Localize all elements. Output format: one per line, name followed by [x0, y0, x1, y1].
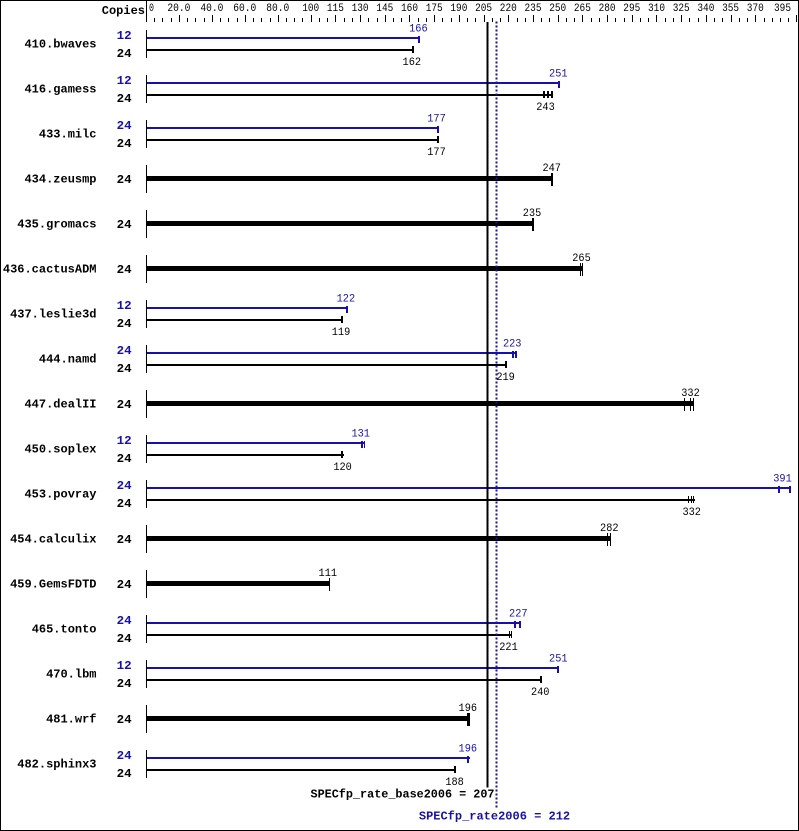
svg-text:24: 24 — [117, 137, 132, 151]
svg-text:160: 160 — [401, 3, 418, 15]
svg-text:450.soplex: 450.soplex — [24, 443, 96, 457]
svg-text:24: 24 — [117, 578, 132, 592]
svg-text:177: 177 — [427, 147, 446, 159]
svg-text:24: 24 — [117, 749, 132, 763]
svg-text:391: 391 — [773, 473, 792, 485]
svg-text:219: 219 — [496, 372, 515, 384]
svg-text:24: 24 — [117, 497, 132, 511]
svg-text:196: 196 — [459, 703, 478, 715]
svg-text:12: 12 — [117, 74, 132, 88]
svg-text:482.sphinx3: 482.sphinx3 — [17, 758, 96, 772]
svg-text:235: 235 — [523, 208, 542, 220]
svg-text:24: 24 — [117, 173, 132, 187]
svg-text:332: 332 — [682, 507, 701, 519]
svg-text:24: 24 — [117, 317, 132, 331]
svg-text:465.tonto: 465.tonto — [32, 623, 97, 637]
svg-text:100: 100 — [302, 3, 319, 15]
svg-text:145: 145 — [376, 3, 393, 15]
svg-text:227: 227 — [509, 608, 528, 620]
svg-text:265: 265 — [574, 3, 591, 15]
svg-text:24: 24 — [117, 344, 132, 358]
svg-text:410.bwaves: 410.bwaves — [24, 38, 96, 52]
svg-text:220: 220 — [500, 3, 517, 15]
svg-text:24: 24 — [117, 632, 132, 646]
svg-text:40.0: 40.0 — [200, 3, 223, 15]
svg-text:24: 24 — [117, 767, 132, 781]
svg-text:325: 325 — [673, 3, 690, 15]
svg-text:12: 12 — [117, 299, 132, 313]
svg-text:111: 111 — [319, 568, 338, 580]
svg-text:310: 310 — [648, 3, 665, 15]
svg-text:265: 265 — [572, 253, 591, 265]
svg-text:24: 24 — [117, 119, 132, 133]
svg-text:282: 282 — [600, 523, 619, 535]
svg-text:459.GemsFDTD: 459.GemsFDTD — [10, 578, 96, 592]
svg-text:395: 395 — [774, 3, 791, 15]
svg-text:24: 24 — [117, 677, 132, 691]
svg-text:243: 243 — [536, 102, 555, 114]
svg-text:12: 12 — [117, 659, 132, 673]
svg-text:435.gromacs: 435.gromacs — [17, 218, 96, 232]
svg-text:166: 166 — [409, 23, 428, 35]
svg-text:119: 119 — [332, 327, 351, 339]
svg-text:SPECfp_rate2006 = 212: SPECfp_rate2006 = 212 — [419, 810, 570, 824]
svg-text:436.cactusADM: 436.cactusADM — [3, 263, 97, 277]
svg-text:24: 24 — [117, 47, 132, 61]
svg-text:80.0: 80.0 — [266, 3, 289, 15]
svg-text:481.wrf: 481.wrf — [46, 713, 96, 727]
svg-text:355: 355 — [722, 3, 739, 15]
svg-text:0: 0 — [149, 3, 154, 15]
svg-text:131: 131 — [351, 428, 370, 440]
svg-text:205: 205 — [475, 3, 492, 15]
svg-text:12: 12 — [117, 29, 132, 43]
svg-text:434.zeusmp: 434.zeusmp — [24, 173, 96, 187]
svg-text:20.0: 20.0 — [167, 3, 190, 15]
svg-text:SPECfp_rate_base2006 = 207: SPECfp_rate_base2006 = 207 — [311, 788, 495, 802]
svg-text:122: 122 — [337, 293, 356, 305]
svg-text:Copies: Copies — [102, 4, 145, 18]
svg-text:177: 177 — [427, 113, 446, 125]
svg-text:251: 251 — [549, 68, 568, 80]
svg-text:115: 115 — [327, 3, 344, 15]
svg-text:340: 340 — [697, 3, 714, 15]
svg-text:162: 162 — [403, 57, 422, 69]
svg-text:453.povray: 453.povray — [24, 488, 96, 502]
svg-text:247: 247 — [542, 163, 561, 175]
svg-text:196: 196 — [459, 743, 478, 755]
svg-text:24: 24 — [117, 479, 132, 493]
svg-text:175: 175 — [426, 3, 443, 15]
svg-text:444.namd: 444.namd — [39, 353, 97, 367]
svg-text:370: 370 — [747, 3, 764, 15]
svg-text:240: 240 — [531, 687, 550, 699]
svg-text:190: 190 — [450, 3, 467, 15]
svg-text:24: 24 — [117, 452, 132, 466]
svg-text:416.gamess: 416.gamess — [24, 83, 96, 97]
svg-text:24: 24 — [117, 218, 132, 232]
svg-text:470.lbm: 470.lbm — [46, 668, 96, 682]
svg-text:280: 280 — [599, 3, 616, 15]
svg-text:130: 130 — [352, 3, 369, 15]
svg-text:437.leslie3d: 437.leslie3d — [10, 308, 96, 322]
svg-text:250: 250 — [549, 3, 566, 15]
svg-text:235: 235 — [525, 3, 542, 15]
svg-text:24: 24 — [117, 92, 132, 106]
svg-text:24: 24 — [117, 263, 132, 277]
svg-text:295: 295 — [623, 3, 640, 15]
svg-text:12: 12 — [117, 434, 132, 448]
svg-text:251: 251 — [549, 653, 568, 665]
svg-text:24: 24 — [117, 533, 132, 547]
svg-text:447.dealII: 447.dealII — [24, 398, 96, 412]
svg-text:221: 221 — [499, 642, 518, 654]
svg-text:223: 223 — [503, 338, 522, 350]
svg-text:120: 120 — [333, 462, 352, 474]
svg-text:24: 24 — [117, 398, 132, 412]
svg-text:454.calculix: 454.calculix — [10, 533, 96, 547]
svg-text:332: 332 — [681, 388, 700, 400]
svg-text:24: 24 — [117, 362, 132, 376]
svg-text:433.milc: 433.milc — [39, 128, 97, 142]
svg-text:24: 24 — [117, 614, 132, 628]
svg-text:24: 24 — [117, 713, 132, 727]
svg-text:60.0: 60.0 — [233, 3, 256, 15]
